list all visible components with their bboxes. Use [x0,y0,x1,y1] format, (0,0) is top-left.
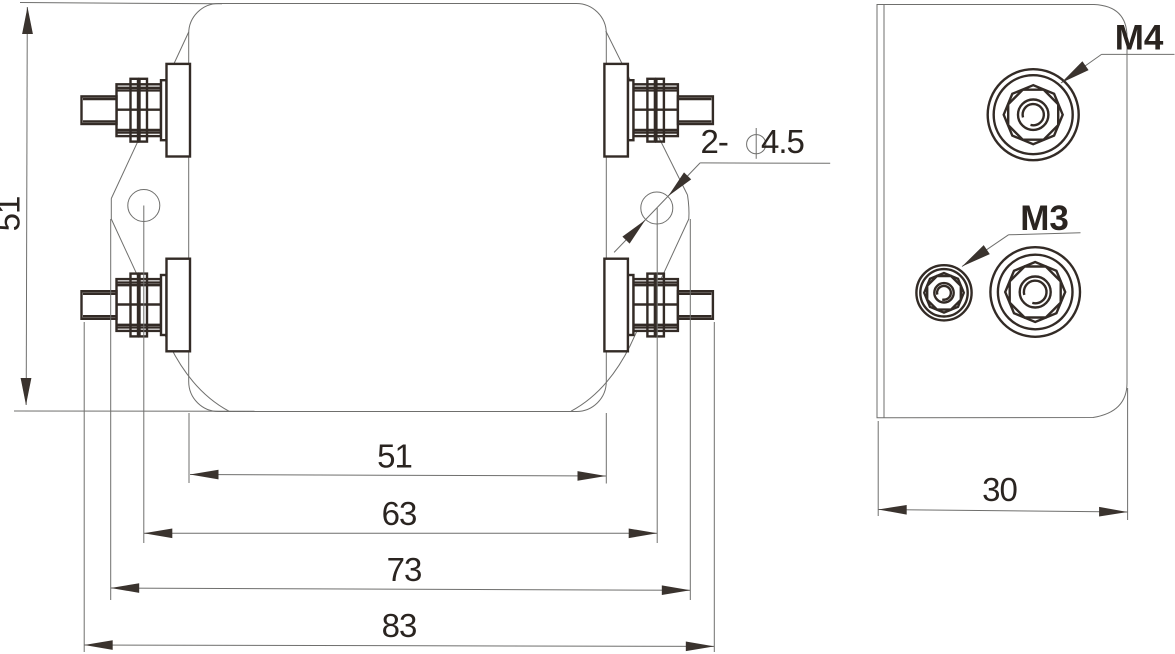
svg-text:63: 63 [382,495,417,532]
svg-text:83: 83 [382,607,417,644]
svg-text:51: 51 [377,438,412,475]
svg-text:30: 30 [982,471,1017,508]
svg-text:M4: M4 [1115,19,1164,58]
svg-text:4.5: 4.5 [761,123,804,160]
svg-text:51: 51 [0,197,27,232]
svg-text:73: 73 [387,551,422,588]
svg-text:2-: 2- [701,123,728,160]
svg-text:M3: M3 [1020,199,1069,238]
